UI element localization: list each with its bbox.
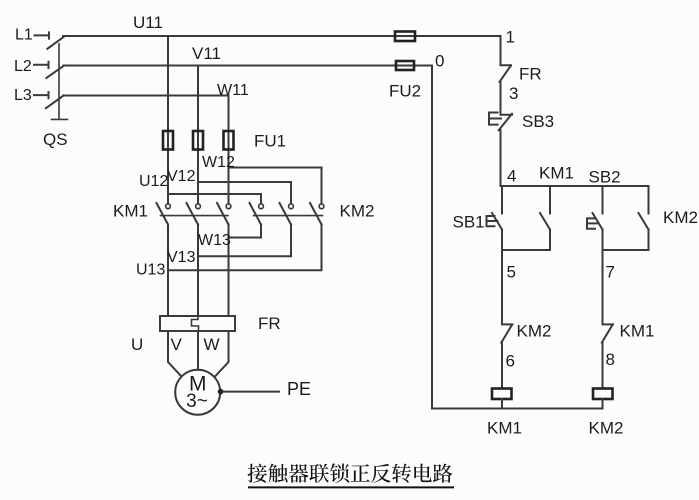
svg-text:U13: U13 <box>136 262 165 279</box>
svg-text:L1: L1 <box>15 27 33 44</box>
svg-text:KM2: KM2 <box>340 202 375 221</box>
svg-text:KM1: KM1 <box>487 419 522 438</box>
svg-text:SB3: SB3 <box>522 112 554 131</box>
svg-text:KM2: KM2 <box>517 322 552 341</box>
svg-text:V11: V11 <box>192 44 221 63</box>
svg-text:0: 0 <box>435 52 444 71</box>
svg-text:6: 6 <box>506 352 515 371</box>
svg-text:7: 7 <box>606 263 615 282</box>
svg-text:KM1: KM1 <box>539 164 574 183</box>
svg-text:PE: PE <box>287 379 311 399</box>
svg-text:4: 4 <box>507 167 516 186</box>
svg-text:FU2: FU2 <box>389 82 421 101</box>
svg-text:FU1: FU1 <box>254 132 286 151</box>
svg-text:3: 3 <box>509 84 518 103</box>
svg-text:V: V <box>171 335 183 354</box>
svg-text:V12: V12 <box>167 168 196 185</box>
svg-text:W: W <box>204 335 220 354</box>
svg-text:W12: W12 <box>202 154 235 171</box>
svg-text:QS: QS <box>43 130 68 149</box>
svg-text:KM2: KM2 <box>663 208 698 227</box>
svg-text:SB1: SB1 <box>453 213 485 232</box>
svg-text:SB2: SB2 <box>589 168 621 187</box>
svg-text:W13: W13 <box>198 232 231 249</box>
svg-text:U12: U12 <box>139 173 168 190</box>
svg-text:KM1: KM1 <box>113 202 148 221</box>
svg-text:3~: 3~ <box>186 391 208 412</box>
svg-text:8: 8 <box>606 350 615 369</box>
svg-text:FR: FR <box>258 314 281 333</box>
svg-text:FR: FR <box>519 65 542 84</box>
svg-text:5: 5 <box>507 263 516 282</box>
svg-text:1: 1 <box>506 28 515 47</box>
svg-text:U: U <box>131 335 143 354</box>
svg-text:L2: L2 <box>14 58 32 75</box>
svg-text:V13: V13 <box>167 249 196 266</box>
svg-text:W11: W11 <box>217 82 249 99</box>
svg-text:KM2: KM2 <box>589 419 624 438</box>
svg-text:L3: L3 <box>14 87 32 104</box>
svg-text:U11: U11 <box>133 13 163 32</box>
svg-text:KM1: KM1 <box>620 322 655 341</box>
